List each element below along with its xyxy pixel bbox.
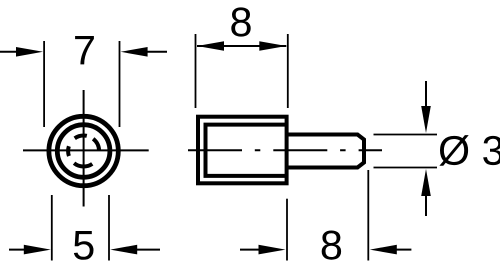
dimension 7: left arrowhead bbox=[16, 47, 43, 57]
dimension 8 top: left extension line bbox=[195, 34, 197, 108]
front view hidden circle (3 mm pin, dashed) bbox=[68, 136, 99, 167]
dimension 7: right arrowhead bbox=[121, 47, 148, 57]
front view middle circle (5 mm sleeve body) bbox=[57, 125, 110, 178]
dimension 8 bottom: right extension line bbox=[367, 170, 369, 261]
dimension 7: left extension line bbox=[43, 41, 45, 127]
dimension diameter 3: lower arrow shaft bbox=[425, 192, 427, 216]
dimension diameter 3: upper arrowhead bbox=[421, 106, 431, 133]
side view body outer rectangle bbox=[198, 117, 287, 184]
dimension 7: right arrow shaft bbox=[146, 51, 167, 53]
dimension 8 bottom: left arrowhead bbox=[259, 245, 286, 255]
side view pin outline with chamfered end bbox=[287, 135, 364, 168]
dimension 8 top: left arrowhead bbox=[197, 41, 224, 51]
front view horizontal centerline bbox=[23, 149, 149, 151]
dimension 5: right arrowhead bbox=[110, 245, 137, 255]
dimension 8 top: right arrowhead bbox=[259, 41, 286, 51]
dimension 7: value label bbox=[75, 36, 94, 64]
dimension diameter 3: lower arrowhead bbox=[421, 169, 431, 196]
side view dash-dot centerline bbox=[188, 149, 382, 151]
front view outer circle (7 mm sleeve flange) bbox=[49, 116, 118, 185]
front view vertical centerline bbox=[83, 90, 85, 207]
dimension 8 bottom: left extension line bbox=[286, 199, 288, 261]
dimension 7: left arrow shaft bbox=[0, 51, 18, 53]
dimension 8 bottom: left arrow shaft bbox=[240, 249, 262, 251]
dimension 8 top: value label bbox=[231, 7, 250, 36]
dimension diameter 3: value label bbox=[439, 135, 500, 166]
dimension 5: left arrow shaft bbox=[9, 249, 26, 251]
dimension 7: right extension line bbox=[119, 41, 121, 127]
dimension diameter 3: upper arrow shaft bbox=[425, 81, 427, 110]
dimension 5: right arrow shaft bbox=[136, 249, 160, 251]
dimension 8 bottom: right arrowhead bbox=[370, 245, 397, 255]
dimension 5: left arrowhead bbox=[24, 245, 51, 255]
side view body inner wall lines bbox=[206, 125, 287, 176]
dimension diameter 3: bottom extension line bbox=[374, 167, 438, 169]
dimension 8 bottom: value label bbox=[322, 231, 341, 260]
dimension 5: value label bbox=[74, 231, 94, 260]
dimension 5: left extension line bbox=[51, 195, 53, 261]
dimension diameter 3: top extension line bbox=[374, 134, 438, 136]
dimension 8 top: right extension line bbox=[287, 34, 289, 108]
dimension 8 bottom: right arrow shaft bbox=[396, 249, 411, 251]
dimension 8 top: dimension line bbox=[197, 45, 286, 47]
dimension 5: right extension line bbox=[108, 195, 110, 261]
